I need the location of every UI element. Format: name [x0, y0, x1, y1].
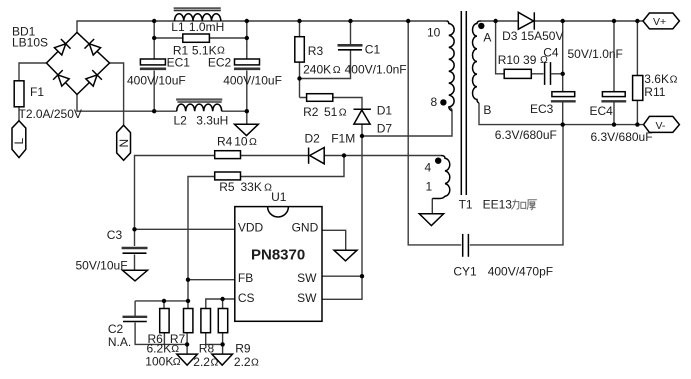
svg-text:LB10S: LB10S	[12, 36, 48, 50]
wire EC4 column	[613, 21, 615, 125]
capacitor C2	[108, 317, 147, 349]
resistor R1	[173, 34, 225, 58]
svg-text:FB: FB	[238, 271, 253, 285]
wire GND pin to ground	[322, 230, 346, 250]
resistor R7	[170, 309, 193, 347]
inductor L1	[171, 8, 224, 33]
resistor R10	[498, 53, 548, 78]
wire R1 leads	[154, 37, 247, 39]
node C4 EC3 junction	[561, 72, 565, 76]
wire aux node to aux winding pin 4	[344, 155, 441, 157]
wire secondary A to D3	[480, 20, 518, 22]
wire EC1 column	[153, 21, 155, 111]
wire D3 cathode to V+	[535, 20, 643, 22]
svg-text:EC4: EC4	[590, 104, 614, 118]
node output rail junctions	[493, 19, 639, 23]
svg-text:L: L	[12, 138, 26, 145]
svg-text:C4: C4	[543, 46, 559, 60]
svg-text:400V/1.0nF: 400V/1.0nF	[345, 63, 407, 77]
capacitor CY1	[453, 234, 553, 279]
wire CY1 left branch	[408, 21, 461, 245]
node R9 bottom junction	[220, 342, 224, 346]
wire R4 to D2	[241, 155, 309, 157]
wire bridge left vertex to fuse	[19, 63, 47, 81]
node R6 R7 top junctions	[162, 299, 190, 303]
wire aux winding pin 1 to ground	[431, 199, 433, 214]
node CS R9 junction	[220, 297, 224, 301]
svg-text:400V/10uF: 400V/10uF	[127, 74, 186, 88]
transformer T1 label EE13	[483, 198, 537, 212]
capacitor EC4	[590, 92, 653, 144]
terminal V+	[643, 13, 679, 29]
wire R5 right riser to aux node	[241, 156, 345, 177]
svg-text:2.2: 2.2	[193, 355, 210, 369]
svg-text:T2.0A/250V: T2.0A/250V	[19, 107, 82, 121]
wire R3 column	[299, 21, 301, 98]
svg-text:Ω: Ω	[251, 357, 259, 369]
terminal N	[117, 125, 131, 160]
svg-text:Ω: Ω	[339, 107, 347, 119]
svg-text:400V/470pF: 400V/470pF	[488, 265, 553, 279]
svg-text:50V/10uF: 50V/10uF	[76, 259, 128, 273]
svg-text:Ω: Ω	[670, 74, 678, 86]
svg-text:EE13: EE13	[483, 198, 513, 212]
transformer T1 pin 4 phase dot	[435, 158, 441, 164]
wire FB pin	[188, 279, 235, 281]
svg-text:T1: T1	[459, 198, 473, 212]
svg-text:L2: L2	[174, 113, 188, 127]
transformer T1 aux winding pins 4 1	[425, 156, 450, 199]
op-amp U1 PN8370	[235, 190, 322, 321]
wire R5 left to FB	[188, 177, 215, 280]
node output ground rail junctions	[561, 122, 640, 126]
resistor R3	[295, 37, 341, 77]
resistor R6	[145, 309, 180, 369]
svg-text:2.2: 2.2	[234, 355, 251, 369]
svg-text:A: A	[483, 31, 491, 45]
capacitor C4	[543, 46, 623, 85]
svg-text:100K: 100K	[145, 355, 173, 369]
node C3 VDD junction	[132, 227, 136, 231]
svg-text:D7: D7	[377, 122, 393, 136]
svg-text:3.6K: 3.6K	[644, 72, 669, 86]
wire D1 node to primary pin 8	[362, 108, 452, 137]
svg-text:C1: C1	[365, 43, 381, 57]
svg-text:EC2: EC2	[208, 56, 232, 70]
wire C1 column and join to R3	[300, 21, 351, 79]
capacitor C3	[76, 228, 148, 273]
svg-text:Ω: Ω	[333, 64, 341, 76]
svg-text:C2: C2	[108, 322, 124, 336]
svg-text:N: N	[117, 139, 131, 148]
resistor R9	[218, 309, 259, 370]
node R7 bottom junction	[185, 342, 189, 346]
svg-text:C3: C3	[107, 228, 123, 242]
svg-text:4: 4	[425, 161, 432, 175]
svg-text:8: 8	[431, 95, 438, 109]
resistor R4	[215, 135, 257, 159]
svg-text:B: B	[483, 103, 491, 117]
svg-text:D1: D1	[377, 104, 393, 118]
resistor R2	[303, 94, 347, 119]
wire top rail bridge to transformer primary	[77, 21, 447, 33]
svg-text:10: 10	[427, 26, 441, 40]
wire CS pin to R8 R9 tops	[206, 299, 235, 309]
wire CY1 right branch to output ground	[470, 125, 563, 245]
svg-text:R10 39: R10 39	[498, 53, 537, 67]
node FB junction	[186, 278, 190, 282]
diode D2	[305, 132, 356, 164]
svg-text:F1: F1	[30, 85, 44, 99]
svg-text:1.0mH: 1.0mH	[189, 20, 224, 34]
capacitor EC3	[495, 92, 576, 142]
svg-text:6.3V/680uF: 6.3V/680uF	[591, 130, 653, 144]
wire FB divider net C2 R6 R7 tops	[135, 280, 188, 316]
wire EC2 column	[246, 21, 248, 111]
svg-text:6.3V/680uF: 6.3V/680uF	[495, 128, 557, 142]
svg-text:240K: 240K	[303, 63, 331, 77]
svg-text:33K: 33K	[241, 180, 262, 194]
wire bottom rail bridge to L2	[77, 95, 177, 112]
wire R8 R9 bottoms	[206, 333, 223, 354]
CJK char hou	[527, 200, 537, 210]
terminal V-	[644, 116, 680, 132]
svg-text:N.A.: N.A.	[108, 335, 131, 349]
svg-text:R9: R9	[235, 342, 251, 356]
resistor R11	[633, 72, 678, 100]
ground U1 GND	[334, 250, 357, 261]
svg-text:L1: L1	[171, 20, 185, 34]
svg-text:CS: CS	[238, 291, 255, 305]
wire R2 leads to D1	[300, 98, 363, 110]
svg-text:VDD: VDD	[238, 221, 264, 235]
node R1 row junctions	[152, 36, 249, 40]
svg-text:6.2K: 6.2K	[147, 342, 172, 356]
capacitor C1	[338, 43, 407, 77]
wire EC3 column	[562, 21, 564, 125]
capacitor EC1	[127, 56, 190, 88]
svg-text:SW: SW	[297, 271, 317, 285]
wire D1 anode to SW node	[361, 124, 363, 276]
wire fuse to L terminal	[18, 107, 20, 121]
wire VDD pin	[135, 228, 235, 230]
svg-text:3.3uH: 3.3uH	[196, 113, 228, 127]
wire D2 anode to aux node	[324, 155, 344, 157]
svg-text:CY1: CY1	[453, 265, 477, 279]
ground primary bus	[235, 124, 259, 135]
inductor L2	[174, 100, 229, 128]
svg-text:R11: R11	[644, 85, 665, 99]
wire L2 to EC2 column and primary ground	[222, 111, 247, 124]
fuse F1	[14, 81, 82, 121]
svg-text:R4: R4	[217, 135, 233, 149]
node R3 C1 join	[297, 76, 301, 80]
wire bridge right vertex to N terminal	[110, 63, 124, 125]
CJK char jia	[511, 199, 525, 209]
svg-text:10: 10	[234, 135, 248, 149]
svg-text:D3 15A50V: D3 15A50V	[502, 29, 563, 43]
node D2 aux junction	[342, 153, 346, 157]
diode D3	[502, 12, 563, 43]
svg-text:EC3: EC3	[530, 102, 554, 116]
resistor R8	[193, 309, 218, 370]
ground C3	[123, 270, 148, 281]
svg-text:SW: SW	[297, 291, 317, 305]
svg-text:U1: U1	[271, 190, 287, 204]
svg-text:R2: R2	[303, 105, 319, 119]
wire output bottom rail	[479, 103, 644, 125]
node bottom rail junctions	[152, 109, 249, 113]
svg-text:50V/1.0nF: 50V/1.0nF	[568, 47, 623, 61]
ground R8 R9	[212, 354, 233, 365]
node input rail junctions	[152, 19, 410, 23]
diode D1	[354, 104, 393, 136]
svg-text:R5: R5	[219, 180, 235, 194]
ground R6 R7	[177, 354, 198, 365]
svg-text:EC1: EC1	[167, 56, 191, 70]
terminal L	[12, 121, 26, 158]
transformer T1 secondary winding pins A B	[473, 21, 492, 117]
ground aux winding	[419, 214, 443, 226]
svg-text:51: 51	[324, 105, 338, 119]
svg-text:V+: V+	[653, 16, 666, 28]
transformer T1 primary winding pins 10 8	[427, 21, 454, 111]
wire snubber R10 C4	[496, 21, 563, 74]
svg-text:400V/10uF: 400V/10uF	[223, 74, 282, 88]
svg-text:V-: V-	[656, 120, 666, 132]
wire VDD column R4 left	[135, 156, 215, 230]
svg-text:F1M: F1M	[331, 132, 355, 146]
node SW junction	[360, 274, 364, 278]
wire C3 leads	[134, 229, 136, 270]
svg-text:Ω: Ω	[249, 136, 257, 148]
bridge rectifier BD1	[12, 25, 110, 95]
capacitor EC2	[208, 56, 282, 88]
svg-text:1: 1	[426, 180, 433, 194]
node D1 anode	[360, 134, 364, 138]
resistor R5	[215, 172, 272, 194]
svg-text:D2: D2	[305, 132, 321, 146]
svg-text:R3: R3	[308, 44, 324, 58]
wire SW pins	[322, 276, 362, 299]
transformer T1 pin A phase dot	[478, 23, 484, 29]
wire C2 bottom to R6 R7 bottoms	[135, 323, 187, 355]
svg-text:GND: GND	[292, 221, 319, 235]
wire R11 column	[636, 21, 638, 125]
svg-text:R7: R7	[170, 332, 186, 346]
transformer T1 pin 8 phase dot	[440, 99, 446, 105]
svg-text:PN8370: PN8370	[251, 247, 305, 264]
transformer T1 core	[459, 11, 473, 212]
